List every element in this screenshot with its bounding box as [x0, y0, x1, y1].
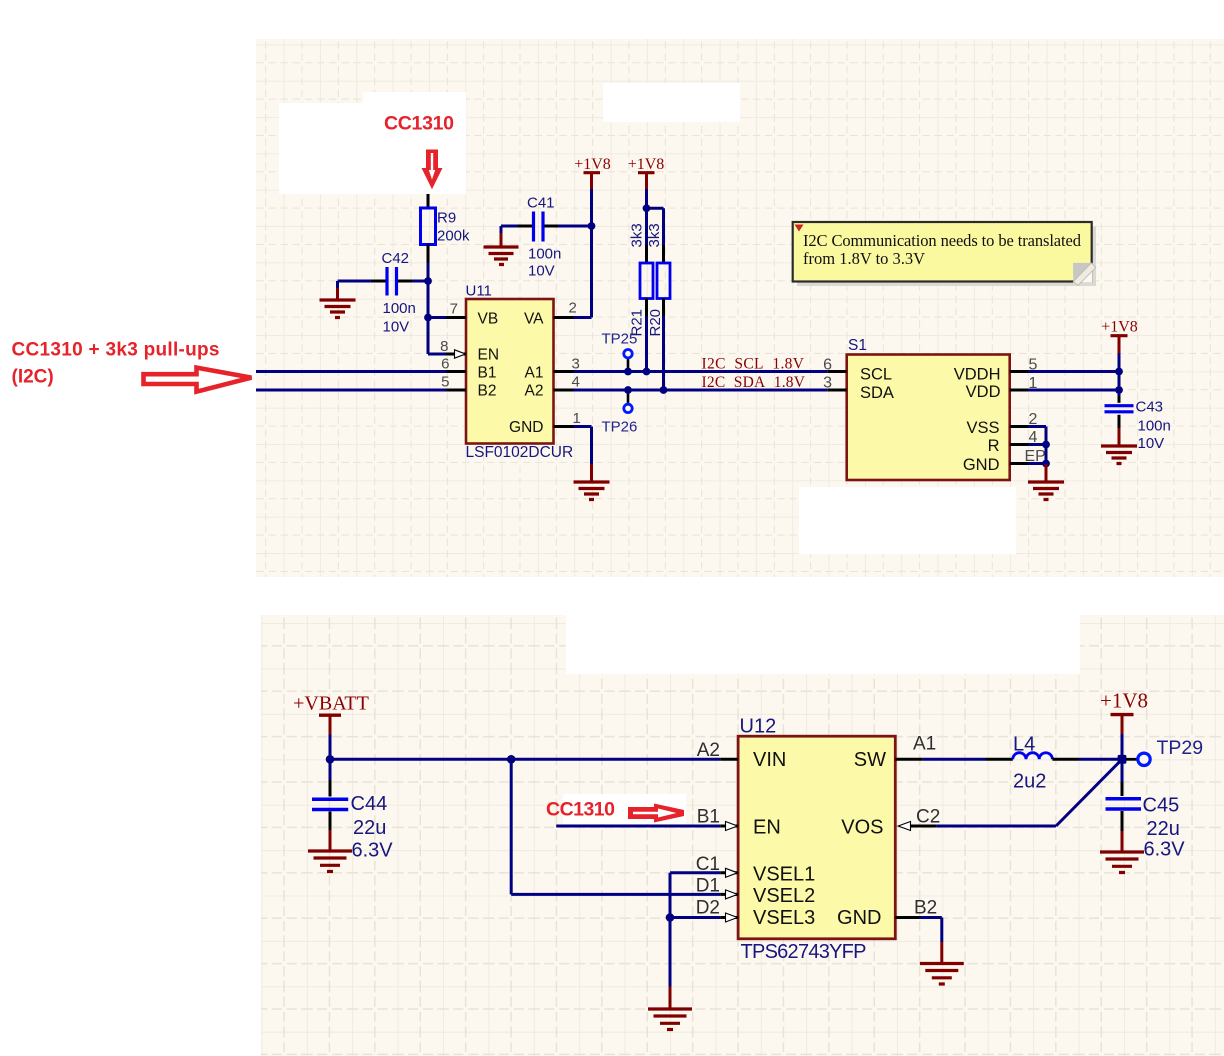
svg-text:GND: GND [837, 907, 881, 929]
annotation arrow right (small) [628, 804, 684, 823]
svg-text:SCL: SCL [860, 366, 892, 384]
svg-text:GND: GND [509, 419, 543, 436]
junction R21/R20 top [643, 204, 651, 212]
svg-text:D2: D2 [696, 898, 720, 919]
C45 bottom pin [1121, 811, 1124, 831]
svg-text:B1: B1 [697, 807, 720, 828]
resistor R21 [640, 263, 653, 299]
svg-text:R20: R20 [647, 309, 664, 337]
junction VDD [1115, 386, 1123, 394]
svg-text:SDA: SDA [860, 384, 894, 402]
svg-text:100n: 100n [383, 300, 416, 317]
junction +VBATT [326, 755, 335, 764]
junction R20/SDA [660, 386, 668, 394]
redaction patch (behind CC1310 bottom annotation) [563, 794, 686, 824]
wire EN [556, 825, 720, 828]
svg-text:EN: EN [478, 346, 500, 363]
U11 pin 6 B1 [446, 370, 466, 373]
S1 pin 5 VDDH [1010, 370, 1028, 373]
wire VSEL2 from VBATT rail [511, 759, 720, 894]
note fold [1073, 263, 1093, 283]
svg-text:A2: A2 [697, 740, 720, 761]
redaction patch (above U12) [566, 615, 1080, 674]
capacitor C41 [534, 212, 544, 242]
capacitor C45 [1106, 799, 1142, 809]
svg-text:U11: U11 [466, 283, 492, 300]
test point TP29 [1126, 758, 1138, 761]
wire +VBATT stem [329, 735, 332, 760]
S1 pin EP GND [1010, 462, 1028, 465]
resistor R9 [421, 208, 436, 245]
svg-text:8: 8 [440, 338, 448, 355]
svg-text:6.3V: 6.3V [1144, 839, 1186, 861]
svg-text:6.3V: 6.3V [352, 840, 394, 862]
svg-text:I2C Communication needs to be: I2C Communication needs to be translated [803, 231, 1082, 250]
wire L4 to node [1079, 758, 1122, 761]
C41 pins [518, 225, 558, 228]
svg-text:VSS: VSS [966, 419, 999, 437]
svg-text:+1V8: +1V8 [1101, 319, 1138, 336]
S1 pin 2 VSS [1010, 425, 1028, 428]
svg-text:C1: C1 [696, 854, 720, 875]
ground U12 GND [940, 942, 943, 963]
U11 pin 2 VA [554, 316, 574, 319]
wire C44 top lead [329, 759, 332, 780]
C43 top pin [1118, 396, 1121, 403]
wire C41 left lead [501, 226, 518, 233]
svg-text:C42: C42 [382, 250, 410, 267]
svg-text:+1V8: +1V8 [1100, 689, 1148, 713]
U11 pin 5 B2 [446, 389, 466, 392]
svg-text:VB: VB [478, 310, 499, 327]
svg-text:A1: A1 [913, 734, 936, 755]
svg-text:C44: C44 [351, 793, 388, 815]
wire VDDH to +1V8 [1028, 370, 1119, 373]
C44 bottom pin [329, 812, 332, 831]
redaction patch (below S1) [799, 487, 1016, 554]
svg-text:VDD: VDD [966, 383, 1001, 401]
capacitor C43 [1105, 406, 1134, 412]
wire VSEL3 [670, 916, 720, 919]
svg-text:10V: 10V [383, 319, 410, 336]
ground VSEL [669, 987, 672, 1009]
wire R20 to SDA [662, 316, 665, 390]
wire I2C SDA horizontal [256, 389, 828, 392]
svg-text:VSEL3: VSEL3 [753, 907, 815, 929]
wire +1V8 to R21/R20 [647, 189, 664, 263]
capacitor C44 [312, 799, 348, 809]
wire C41 right lead [558, 225, 592, 228]
chip S1 box [847, 355, 1010, 481]
svg-text:10V: 10V [1138, 435, 1165, 452]
svg-text:B1: B1 [478, 364, 497, 381]
annotation arrow down [422, 150, 443, 190]
svg-text:TP29: TP29 [1157, 737, 1204, 759]
annotation arrow right (large hollow) [144, 368, 252, 392]
C42 pins [372, 280, 413, 283]
U12 pin C2 VOS [898, 822, 910, 831]
svg-text:TP26: TP26 [602, 419, 638, 436]
junction VSEL2 branch [507, 755, 516, 764]
U11 pin 7 VB [446, 316, 466, 319]
svg-text:1: 1 [573, 410, 581, 427]
op U11 box [466, 299, 554, 444]
svg-text:2: 2 [569, 300, 577, 317]
svg-text:A1: A1 [525, 364, 544, 381]
svg-text:I2C SCL 1.8V: I2C SCL 1.8V [702, 355, 805, 372]
test point TP26 [627, 390, 630, 404]
svg-text:U12: U12 [740, 716, 777, 738]
svg-text:A2: A2 [525, 382, 544, 399]
svg-text:3: 3 [823, 375, 832, 392]
ground C43 [1118, 428, 1121, 445]
svg-text:TPS62743YFP: TPS62743YFP [741, 941, 867, 963]
R20 top pin [662, 245, 665, 263]
svg-text:CC1310: CC1310 [546, 799, 615, 821]
svg-text:LSF0102DCUR: LSF0102DCUR [466, 444, 574, 461]
ground S1 [1045, 464, 1048, 481]
S1 pin 4 R [1010, 443, 1028, 446]
svg-text:+1V8: +1V8 [574, 156, 611, 173]
svg-text:VOS: VOS [841, 817, 883, 839]
C43 bottom pin [1118, 415, 1121, 428]
U12 pin B2 GND [895, 916, 919, 919]
svg-text:I2C SDA 1.8V: I2C SDA 1.8V [702, 374, 806, 391]
R21 bottom pin [645, 299, 648, 317]
svg-text:C2: C2 [916, 807, 940, 828]
svg-text:7: 7 [450, 301, 458, 318]
svg-text:22u: 22u [1147, 818, 1180, 840]
resistor R20 [657, 263, 670, 299]
wire +1V8 down through VDDH/VDD [1118, 354, 1121, 397]
svg-text:22u: 22u [353, 817, 386, 839]
wire C42 right lead [412, 280, 428, 283]
chip U12 box [738, 736, 895, 939]
L4 right pin [1052, 758, 1079, 761]
ground U11 GND [590, 464, 593, 481]
wire SW to L4 [923, 758, 986, 761]
svg-text:B2: B2 [478, 382, 497, 399]
svg-text:2u2: 2u2 [1013, 771, 1046, 793]
ground C41 [500, 233, 503, 246]
capacitor C42 [387, 267, 397, 296]
svg-text:100n: 100n [1138, 418, 1171, 435]
svg-text:5: 5 [441, 373, 449, 390]
svg-text:10V: 10V [528, 263, 555, 280]
ground C45 [1121, 831, 1124, 851]
U12 pin C1 VSEL1 [720, 871, 738, 874]
junction VDDH [1115, 368, 1123, 376]
R21 top pin [645, 245, 648, 263]
wire I2C SCL horizontal [256, 370, 828, 373]
schematic sheet bottom panel [261, 615, 1224, 1056]
U11 pin 3 A1 [554, 370, 574, 373]
junction TP29 node [1118, 755, 1127, 764]
svg-text:100n: 100n [528, 246, 561, 263]
svg-text:EN: EN [753, 817, 781, 839]
svg-text:CC1310 + 3k3 pull-ups: CC1310 + 3k3 pull-ups [12, 340, 220, 361]
svg-text:CC1310: CC1310 [384, 113, 454, 135]
svg-text:+1V8: +1V8 [628, 156, 665, 173]
redaction patch (top-left, around CC1310 label) [279, 103, 466, 194]
svg-text:GND: GND [963, 456, 1000, 474]
svg-text:+VBATT: +VBATT [293, 693, 369, 715]
svg-text:VSEL2: VSEL2 [753, 885, 815, 907]
svg-text:from 1.8V to 3.3V: from 1.8V to 3.3V [803, 249, 925, 268]
U12 pin D2 VSEL3 [720, 916, 738, 919]
schematic sheet top panel [256, 39, 1224, 577]
inductor L4 [1013, 753, 1053, 760]
U11 pin 1 GND [554, 425, 574, 428]
wire GND to ground [920, 918, 942, 943]
U12 pin B1 EN [720, 825, 738, 828]
svg-text:VIN: VIN [753, 749, 786, 771]
svg-text:R9: R9 [437, 210, 456, 227]
junction VSEL1/VSEL3 [666, 913, 675, 922]
U12 pin A2 VIN [720, 758, 738, 761]
svg-text:L4: L4 [1013, 734, 1035, 756]
wire VDD to C43 [1028, 389, 1119, 392]
wire VSS/R/EP bus [1028, 427, 1046, 465]
svg-text:D1: D1 [696, 876, 720, 897]
svg-text:6: 6 [441, 355, 449, 372]
R20 bottom pin [662, 299, 665, 317]
wire C45 top lead [1121, 759, 1124, 782]
S1 pin 1 VDD [1010, 389, 1028, 392]
svg-text:C41: C41 [527, 195, 555, 212]
U12 pin D1 VSEL2 [720, 893, 738, 896]
U11 pin 8 EN [446, 353, 466, 356]
svg-text:(I2C): (I2C) [12, 367, 54, 388]
R9 bottom pin [427, 245, 430, 264]
junction R21/SCL [643, 368, 651, 376]
note box [793, 222, 1092, 282]
svg-text:SW: SW [854, 749, 886, 771]
junction C41/+1V8 [588, 222, 596, 230]
svg-text:6: 6 [823, 356, 832, 373]
U12 pin A1 SW [895, 758, 922, 761]
svg-text:B2: B2 [914, 898, 937, 919]
svg-text:C43: C43 [1136, 399, 1164, 416]
svg-text:VSEL1: VSEL1 [753, 863, 815, 885]
wire C42 left lead [338, 281, 372, 288]
wire +1V8 to VA [574, 189, 592, 318]
svg-text:S1: S1 [848, 337, 867, 354]
svg-text:VA: VA [524, 310, 544, 327]
svg-text:4: 4 [572, 373, 580, 390]
wire VIN main rail [330, 758, 720, 761]
ground C42 [336, 288, 339, 299]
svg-text:R: R [988, 437, 1000, 455]
test point TP25 [627, 358, 630, 372]
S1 pin 6 SCL [828, 370, 847, 373]
svg-text:VDDH: VDDH [954, 366, 1001, 384]
svg-text:200k: 200k [437, 228, 470, 245]
junction R9/C42 [424, 277, 432, 285]
wire R21 to SCL [645, 316, 648, 372]
wire U11 GND to ground [574, 427, 592, 465]
S1 pin 3 SDA [828, 389, 847, 392]
wire VSEL1 [670, 873, 720, 918]
junction VB [424, 314, 432, 322]
svg-text:C45: C45 [1143, 795, 1180, 817]
svg-text:3: 3 [572, 355, 580, 372]
U11 pin 4 A2 [554, 389, 574, 392]
note shadow [797, 227, 1096, 287]
wire VOS [936, 759, 1122, 826]
svg-text:3k3: 3k3 [629, 223, 646, 247]
svg-text:3k3: 3k3 [646, 223, 663, 247]
junction R [1042, 441, 1050, 449]
redaction patch (top-middle) [603, 83, 740, 122]
wire R9 to VB column [428, 263, 446, 354]
wire R9 top stub [427, 194, 430, 208]
wire +1V8 stem to node [1121, 734, 1124, 759]
ground C44 [329, 830, 332, 850]
wire VSEL3 to ground [669, 918, 672, 987]
L4 left pin [986, 758, 1013, 761]
junction EP [1042, 460, 1050, 468]
svg-text:TP25: TP25 [602, 331, 638, 348]
